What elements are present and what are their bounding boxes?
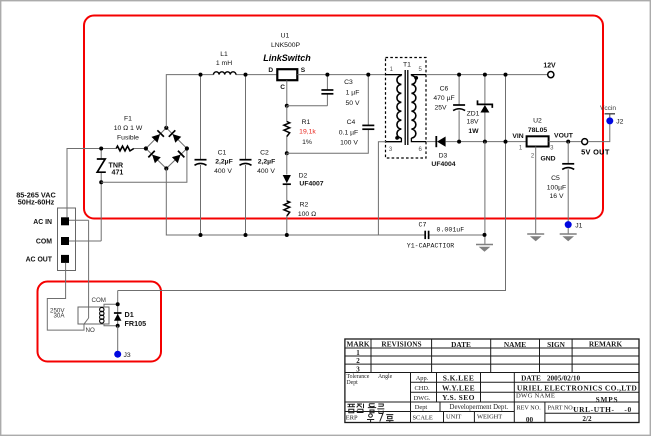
svg-text:D2: D2 bbox=[299, 172, 308, 179]
svg-text:REV NO.: REV NO. bbox=[517, 405, 542, 412]
svg-text:100µF: 100µF bbox=[547, 185, 566, 192]
svg-text:LNK500P: LNK500P bbox=[271, 42, 301, 49]
svg-text:AC IN: AC IN bbox=[33, 219, 52, 226]
wire U1 S to transformer pin1 bbox=[297, 74, 385, 76]
wire rail L1 to U1 D pin bbox=[236, 74, 277, 76]
svg-text:2,2µF: 2,2µF bbox=[258, 159, 276, 166]
title header row bbox=[346, 339, 622, 349]
svg-text:REVISIONS: REVISIONS bbox=[381, 339, 421, 348]
svg-text:Developerment Dept.: Developerment Dept. bbox=[450, 404, 509, 411]
svg-text:C1: C1 bbox=[218, 150, 227, 157]
label 250V 30A bbox=[50, 308, 65, 320]
relay coil bbox=[100, 307, 104, 323]
inductor L1 bbox=[214, 72, 236, 75]
capacitor C6 bbox=[458, 75, 460, 105]
svg-text:S: S bbox=[301, 67, 306, 74]
label TNR 471 bbox=[109, 161, 124, 176]
label C6 470uF 25V bbox=[433, 86, 454, 112]
svg-text:COM: COM bbox=[92, 297, 106, 304]
svg-text:DATE: DATE bbox=[451, 340, 471, 349]
bridge diode top-left bbox=[151, 130, 164, 143]
wire COM pin to TNR line bbox=[69, 240, 101, 242]
svg-text:DWG.: DWG. bbox=[414, 395, 431, 402]
node D1 top bbox=[116, 302, 120, 306]
svg-text:ZD1: ZD1 bbox=[467, 111, 480, 118]
wire relay coil bottom to D1 bbox=[104, 324, 118, 326]
svg-text:25V: 25V bbox=[434, 105, 447, 112]
svg-text:UF4007: UF4007 bbox=[299, 181, 323, 188]
svg-text:VIN: VIN bbox=[512, 133, 523, 140]
svg-text:FR105: FR105 bbox=[125, 319, 147, 328]
svg-text:1 mH: 1 mH bbox=[216, 60, 232, 67]
svg-text:UNIT: UNIT bbox=[446, 413, 461, 420]
label C7 0.001uF bbox=[419, 221, 465, 233]
label C2 2,2uF 400V bbox=[257, 150, 275, 176]
connector J3 bbox=[114, 351, 121, 358]
title block table bbox=[345, 339, 639, 423]
svg-text:470 µF: 470 µF bbox=[433, 95, 454, 102]
varistor TNR symbol bbox=[97, 159, 106, 172]
node bridge left bbox=[144, 146, 148, 150]
node C6 top bbox=[457, 73, 461, 77]
connector J1 bbox=[565, 221, 572, 228]
label ZD1 18V 1W bbox=[466, 111, 479, 136]
dwg name cell bbox=[516, 393, 618, 404]
svg-text:J2: J2 bbox=[616, 119, 623, 126]
wire ZD1 line down to C7 junction and ground bbox=[484, 142, 486, 244]
capacitor C7 Y1 bbox=[425, 231, 428, 239]
svg-text:C4: C4 bbox=[347, 119, 356, 126]
connector J-AC input block bbox=[58, 208, 76, 271]
svg-text:1%: 1% bbox=[302, 139, 312, 146]
svg-text:REMARK: REMARK bbox=[589, 339, 623, 348]
wire bridge top to DC+ rail bbox=[166, 75, 213, 128]
svg-text:J1: J1 bbox=[575, 222, 582, 229]
tolerance cell bbox=[347, 374, 393, 386]
svg-text:D1: D1 bbox=[125, 310, 134, 319]
svg-text:0.1 µF: 0.1 µF bbox=[339, 130, 358, 137]
node ZD1 top bbox=[483, 73, 487, 77]
phase dot primary bbox=[395, 136, 399, 140]
svg-text:COM: COM bbox=[36, 239, 52, 246]
node 12V rail tap bbox=[504, 73, 508, 77]
ground at C7 junction bbox=[476, 245, 493, 252]
svg-text:12V: 12V bbox=[543, 62, 556, 69]
scale unit weight row bbox=[413, 413, 503, 421]
svg-text:SMPS: SMPS bbox=[596, 395, 619, 404]
capacitor C5 bbox=[567, 142, 569, 164]
wire AC OUT to relay NO bbox=[47, 263, 84, 330]
node bridge top bbox=[164, 126, 168, 130]
svg-text:URIEL ELECTRONICS CO.,LTD: URIEL ELECTRONICS CO.,LTD bbox=[517, 383, 637, 392]
wire fuse to bridge left bbox=[134, 148, 146, 150]
relay switch lever bbox=[84, 318, 88, 324]
node R2 bottom bbox=[285, 233, 289, 237]
node D1 bottom bbox=[116, 324, 120, 328]
svg-text:F1: F1 bbox=[124, 115, 132, 122]
power symbol Vccin bbox=[605, 114, 615, 118]
diode D2 UF4007 bbox=[286, 153, 288, 174]
svg-text:SCALE: SCALE bbox=[413, 415, 433, 422]
svg-text:3: 3 bbox=[356, 365, 360, 373]
capacitor C3 bbox=[326, 75, 328, 90]
terminal 5V OUT bbox=[582, 139, 588, 145]
label L1 1mH bbox=[216, 51, 232, 67]
label D1 FR105 bbox=[125, 310, 147, 328]
wire pin3 down to ground rail bbox=[378, 142, 386, 235]
svg-text:00: 00 bbox=[526, 416, 534, 424]
wire 5V terminal to J2 bbox=[588, 124, 610, 142]
svg-text:D: D bbox=[268, 67, 273, 74]
phase dot secondary bbox=[414, 76, 418, 80]
capacitor C2 bbox=[245, 75, 247, 160]
transformer T1 dashed box bbox=[386, 58, 427, 159]
diode D3 UF4004 bbox=[436, 136, 445, 147]
svg-text:Vccin: Vccin bbox=[600, 105, 616, 112]
connector J2 bbox=[606, 117, 613, 124]
wire U1 C pin down bbox=[286, 80, 288, 106]
wire J1 to ground bbox=[567, 228, 569, 234]
svg-text:URL-UTH- -0: URL-UTH- -0 bbox=[573, 405, 632, 414]
svg-text:NO: NO bbox=[86, 327, 95, 334]
resistor R2 bbox=[284, 201, 290, 216]
ground at J1 bbox=[560, 234, 577, 241]
part no cell bbox=[548, 405, 632, 423]
capacitor C4 bbox=[367, 75, 369, 126]
svg-text:C3: C3 bbox=[344, 79, 353, 86]
svg-text:19,1k: 19,1k bbox=[299, 129, 316, 136]
svg-text:SIGN: SIGN bbox=[547, 340, 566, 349]
svg-text:D3: D3 bbox=[439, 153, 448, 160]
svg-text:U1: U1 bbox=[281, 33, 290, 40]
svg-text:1W: 1W bbox=[468, 128, 479, 135]
svg-text:50Hz-60Hz: 50Hz-60Hz bbox=[18, 197, 55, 206]
approval rows bbox=[414, 373, 475, 402]
node C2 bottom bbox=[244, 233, 248, 237]
wire bridge bottom to ground rail bbox=[166, 169, 425, 236]
svg-text:C2: C2 bbox=[260, 150, 269, 157]
relay box 250V 30A bbox=[78, 307, 109, 324]
node mains/TNR junction bbox=[99, 147, 103, 151]
svg-text:U2: U2 bbox=[533, 118, 542, 125]
zener ZD1 18V bbox=[484, 75, 486, 105]
node bridge right bbox=[185, 146, 189, 150]
node bridge bottom bbox=[164, 166, 168, 170]
svg-text:MARK: MARK bbox=[346, 339, 369, 348]
svg-text:R1: R1 bbox=[302, 119, 311, 126]
svg-text:10 Ω 1 W: 10 Ω 1 W bbox=[114, 125, 143, 132]
wire ground rail right of C7 bbox=[429, 234, 485, 236]
svg-text:50 V: 50 V bbox=[346, 100, 360, 107]
wire relay COM lead bbox=[88, 220, 90, 318]
svg-text:UF4004: UF4004 bbox=[431, 161, 455, 168]
node C pin junction bbox=[285, 104, 289, 108]
node C6 bottom / D3 anode bbox=[457, 140, 461, 144]
red highlight box around relay circuit bbox=[38, 282, 162, 362]
label C3 1uF 50V bbox=[344, 79, 360, 107]
svg-text:Y1-CAPACTIOR: Y1-CAPACTIOR bbox=[407, 243, 455, 250]
date cell bbox=[521, 373, 580, 382]
svg-text:C7: C7 bbox=[419, 221, 427, 228]
svg-text:2/2: 2/2 bbox=[582, 415, 592, 423]
wire C node to C3 bottom bbox=[287, 105, 328, 107]
svg-text:Dept: Dept bbox=[347, 380, 359, 386]
bridge diode bottom-left bbox=[148, 151, 161, 164]
svg-text:L1: L1 bbox=[220, 51, 228, 58]
wire pin6 to D3 bbox=[426, 141, 436, 143]
svg-text:DWG NAME: DWG NAME bbox=[516, 393, 555, 400]
svg-text:Y.S. SEO: Y.S. SEO bbox=[442, 393, 475, 402]
dept row bbox=[415, 404, 509, 411]
svg-text:W.Y.LEE: W.Y.LEE bbox=[442, 383, 475, 392]
transformer core bbox=[405, 70, 408, 145]
svg-text:R2: R2 bbox=[300, 202, 309, 209]
node C3 top bbox=[325, 73, 329, 77]
svg-text:100 V: 100 V bbox=[340, 140, 358, 147]
label D3 UF4004 bbox=[431, 153, 455, 169]
svg-text:100 Ω: 100 Ω bbox=[298, 211, 316, 218]
label C4 0.1uF 100V bbox=[339, 119, 359, 147]
svg-text:NAME: NAME bbox=[504, 340, 526, 349]
varistor TNR 471 wire branch bbox=[100, 149, 102, 159]
label quality grade (Korean) bbox=[348, 404, 385, 414]
svg-text:C6: C6 bbox=[440, 86, 449, 93]
diode D1 FR105 bbox=[117, 304, 119, 326]
svg-text:30A: 30A bbox=[53, 313, 65, 320]
wire VOUT to 5V terminal bbox=[549, 141, 582, 143]
svg-text:S.K.LEE: S.K.LEE bbox=[443, 373, 475, 382]
wire AC IN pin to relay COM feed bbox=[69, 219, 89, 221]
fuse F1 bbox=[116, 146, 134, 151]
wire D1 cathode to relay feed bbox=[117, 291, 119, 305]
wire U2 GND down to ground bbox=[535, 147, 537, 235]
COM pin bbox=[61, 237, 69, 245]
wire TNR bottom to bridge right vertex bbox=[101, 149, 187, 183]
node ZD1 bottom bbox=[483, 140, 487, 144]
label C5 100uF 16V bbox=[547, 175, 566, 200]
node VIN rail crossing bbox=[504, 140, 508, 144]
red highlight box around SMPS circuit bbox=[84, 16, 603, 219]
svg-text:1 µF: 1 µF bbox=[346, 90, 360, 97]
node C2 top bbox=[244, 73, 248, 77]
wire relay coil top to D1 bbox=[104, 304, 118, 307]
label C1 2,2uF 400V bbox=[214, 150, 233, 176]
svg-text:18V: 18V bbox=[466, 119, 479, 126]
terminal 12V bbox=[548, 72, 554, 78]
node R1 bottom junction bbox=[285, 151, 289, 155]
wire AC IN riser to mains line bbox=[67, 149, 116, 218]
svg-text:400 V: 400 V bbox=[214, 168, 232, 175]
svg-text:CHD.: CHD. bbox=[414, 385, 429, 392]
svg-text:Fusible: Fusible bbox=[117, 135, 139, 142]
wire pin5 to 12V rail bbox=[426, 74, 548, 76]
svg-text:471: 471 bbox=[112, 168, 124, 176]
svg-text:16 V: 16 V bbox=[550, 193, 564, 200]
svg-text:AC OUT: AC OUT bbox=[26, 257, 53, 264]
svg-text:PART NO.: PART NO. bbox=[548, 405, 575, 412]
label D2 UF4007 bbox=[299, 172, 324, 187]
svg-text:Angle: Angle bbox=[378, 374, 393, 380]
wire D1 bottom to J3 bbox=[117, 326, 119, 351]
svg-text:Dept: Dept bbox=[415, 404, 428, 411]
svg-text:DATE: DATE bbox=[521, 373, 541, 382]
revision rows 1 2 3 bbox=[356, 349, 360, 373]
transformer secondary winding bbox=[411, 74, 426, 77]
svg-text:400 V: 400 V bbox=[257, 168, 275, 175]
svg-text:LinkSwitch: LinkSwitch bbox=[263, 53, 311, 63]
bridge diode top-right bbox=[169, 130, 182, 143]
wire R1 bottom to C4 bbox=[287, 130, 369, 154]
svg-text:VOUT: VOUT bbox=[554, 133, 574, 140]
svg-text:App.: App. bbox=[416, 375, 429, 382]
op U2 78L05 bbox=[527, 136, 549, 146]
resistor R1 bbox=[286, 106, 288, 122]
node C1 bottom bbox=[199, 233, 203, 237]
ground U2 GND bbox=[527, 234, 544, 241]
label F1 10ohm 1W Fusible bbox=[114, 115, 143, 141]
label 85-265 VAC 50Hz-60Hz bbox=[16, 191, 56, 207]
label yes/no (Korean) bbox=[367, 414, 394, 423]
label R1 19,1k 1% bbox=[299, 119, 316, 146]
capacitor C1 bbox=[200, 75, 202, 160]
svg-text:1: 1 bbox=[356, 349, 360, 357]
node C4 top bbox=[366, 73, 370, 77]
node C7 junction bbox=[483, 233, 487, 237]
svg-text:0.001uF: 0.001uF bbox=[437, 227, 465, 234]
svg-text:C5: C5 bbox=[551, 175, 560, 182]
svg-text:WEIGHT: WEIGHT bbox=[477, 413, 502, 420]
svg-text:C: C bbox=[280, 84, 285, 91]
rev no cell bbox=[517, 405, 542, 424]
svg-text:ERP: ERP bbox=[346, 415, 358, 422]
svg-text:2005/02/10: 2005/02/10 bbox=[547, 373, 581, 382]
label R2 100ohm bbox=[298, 202, 316, 219]
svg-text:2,2µF: 2,2µF bbox=[215, 159, 233, 166]
svg-text:J3: J3 bbox=[124, 352, 131, 359]
svg-text:2: 2 bbox=[356, 357, 360, 365]
node TNR bottom junction bbox=[99, 180, 103, 184]
svg-text:78L05: 78L05 bbox=[528, 127, 547, 134]
svg-text:GND: GND bbox=[540, 155, 555, 162]
node C1 top bbox=[199, 73, 203, 77]
AC OUT pin bbox=[61, 255, 69, 263]
svg-text:5V OUT: 5V OUT bbox=[581, 147, 610, 156]
node VOUT junction bbox=[566, 140, 570, 144]
bridge diode bottom-right bbox=[172, 151, 185, 164]
op U1 LNK500P LinkSwitch bbox=[277, 69, 297, 80]
transformer primary winding bbox=[386, 74, 402, 77]
AC IN pin bbox=[61, 217, 69, 225]
wire 12V rail down to relay feed bbox=[118, 75, 506, 291]
bridge rectifier diamond wires bbox=[146, 128, 187, 169]
svg-text:T1: T1 bbox=[403, 62, 411, 69]
